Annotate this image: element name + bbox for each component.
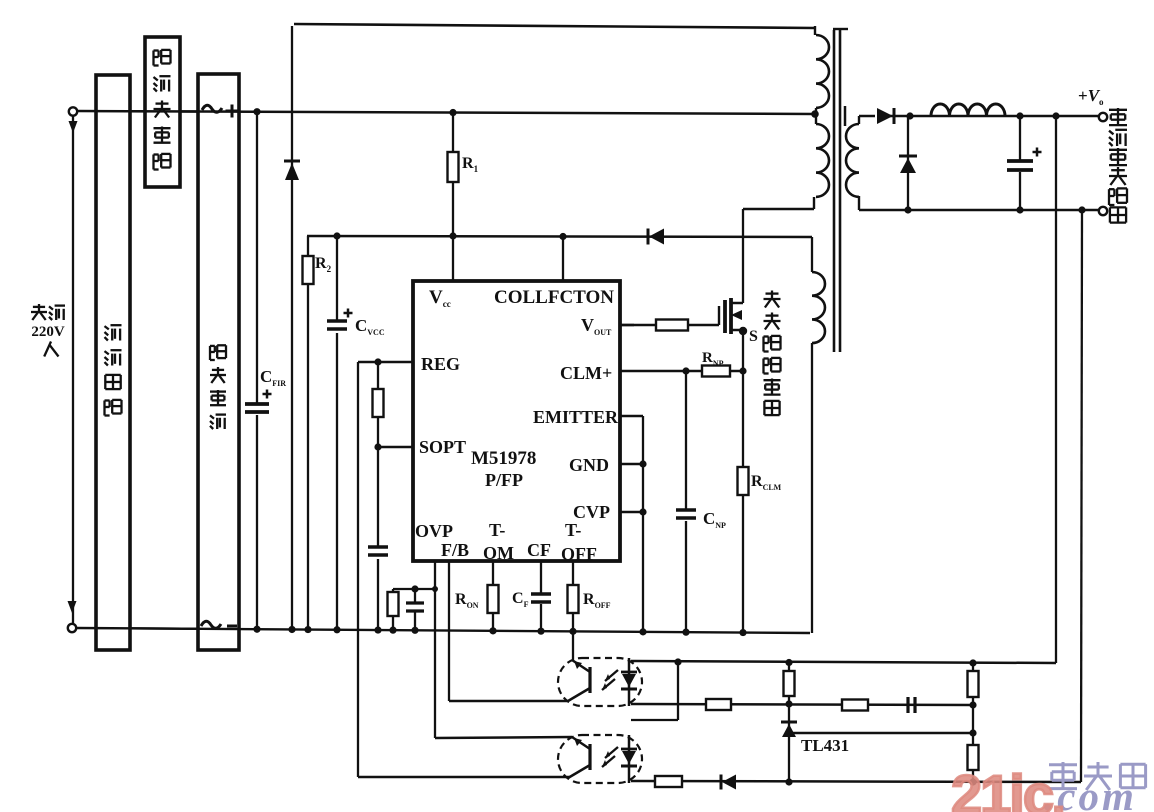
svg-text:T-: T- [565, 520, 581, 540]
svg-text:GND: GND [569, 455, 609, 475]
svg-text:COLLFCTON: COLLFCTON [494, 287, 614, 308]
svg-text:OVP: OVP [415, 521, 453, 541]
svg-text:CF: CF [527, 540, 551, 560]
svg-text:S: S [749, 328, 758, 345]
svg-text:TL431: TL431 [801, 736, 849, 755]
svg-text:220V: 220V [31, 324, 65, 340]
svg-text:EMITTER: EMITTER [533, 407, 619, 427]
svg-text:OM: OM [483, 543, 514, 563]
svg-text:F/B: F/B [441, 540, 469, 560]
svg-text:OFF: OFF [561, 544, 597, 564]
svg-text:REG: REG [421, 354, 460, 374]
svg-text:T-: T- [489, 520, 505, 540]
svg-text:CVP: CVP [573, 502, 610, 522]
svg-text:P/FP: P/FP [485, 470, 523, 490]
svg-text:SOPT: SOPT [419, 437, 466, 457]
svg-text:CLM+: CLM+ [560, 363, 612, 383]
svg-text:M51978: M51978 [471, 448, 536, 469]
